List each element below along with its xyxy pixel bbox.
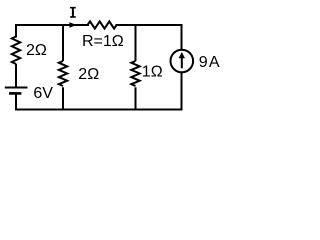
current arrow I on top wire	[69, 22, 76, 28]
resistor 1ohm zigzag	[131, 61, 139, 86]
svg-text:6V: 6V	[33, 85, 53, 102]
battery V1 long plate	[5, 87, 28, 89]
svg-text:9A: 9A	[199, 54, 221, 71]
wire right branch lower	[181, 73, 183, 110]
svg-text:2Ω: 2Ω	[26, 42, 47, 59]
wire top left segment	[16, 24, 88, 26]
svg-text:1Ω: 1Ω	[142, 64, 163, 81]
wire bottom	[16, 109, 182, 111]
wire left branch middle	[15, 64, 17, 87]
svg-text:R=1Ω: R=1Ω	[82, 33, 124, 50]
battery V1 short plate	[9, 92, 21, 95]
wire middle branch lower	[62, 87, 64, 109]
wire right branch upper	[181, 25, 183, 50]
resistor 2ohm left zigzag	[12, 37, 20, 65]
current source I1 arrow shaft	[181, 58, 183, 69]
wire left branch upper	[15, 25, 17, 37]
current source I1 arrow head	[179, 52, 185, 58]
current source I1 circle	[171, 50, 194, 73]
wire middle branch upper	[62, 24, 64, 61]
resistor R1 horizontal zigzag	[88, 21, 117, 28]
wire 1ohm branch lower	[135, 87, 137, 109]
wire left branch lower	[15, 95, 17, 110]
svg-text:2Ω: 2Ω	[78, 66, 99, 83]
resistor 2ohm middle zigzag	[59, 61, 67, 86]
wire top right segment	[117, 24, 182, 26]
label I	[70, 7, 76, 18]
wire 1ohm branch upper	[135, 24, 137, 61]
